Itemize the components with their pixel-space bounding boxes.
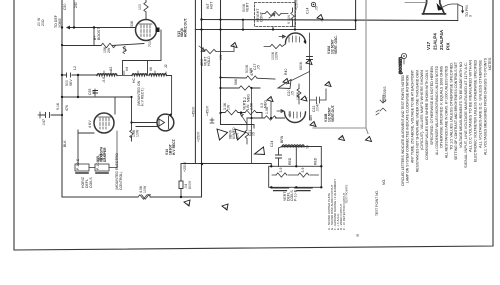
svg-text:CONTROL): CONTROL): [119, 171, 123, 190]
svg-text:3.9: 3.9: [301, 167, 305, 172]
svg-text:TO 1/2 VALUES UNLESS OTHERWISE: TO 1/2 VALUES UNLESS OTHERWISE SPECIFIED…: [449, 62, 453, 150]
svg-text:PIX: PIX: [446, 42, 451, 50]
svg-text:ANY TUBE, 250 ABOVE, VOLTAGE T: ANY TUBE, 250 ABOVE, VOLTAGE TO BE AT EA…: [411, 70, 415, 163]
svg-text:TEST POINT NO.: TEST POINT NO.: [375, 190, 379, 216]
svg-text:ALL CONDENSER VALUES MICROFARA: ALL CONDENSER VALUES MICROFARADS UNLESS …: [435, 65, 439, 155]
svg-text:.05: .05: [315, 6, 319, 11]
svg-text:50V: 50V: [236, 132, 240, 139]
svg-text:476: 476: [65, 105, 69, 111]
svg-text:C50: C50: [63, 3, 67, 10]
svg-text:YOKE: YOKE: [58, 18, 62, 28]
svg-text:A2: A2: [109, 67, 113, 71]
svg-text:+250V: +250V: [197, 131, 201, 142]
svg-text:680K: 680K: [299, 61, 303, 70]
svg-text:H - SOUND LIMITER PLATE: H - SOUND LIMITER PLATE: [327, 193, 331, 230]
svg-text:LAMP ON SYSTEM CONNECTED INDIC: LAMP ON SYSTEM CONNECTED INDICATE CLOCKW…: [406, 74, 410, 183]
svg-text:L2: L2: [73, 66, 77, 70]
svg-text:CONT: CONT: [260, 12, 264, 22]
svg-text:330: 330: [123, 46, 127, 52]
svg-text:+250V: +250V: [295, 0, 299, 10]
svg-text:ALL D.C VOLTAGES TO BE MEASURE: ALL D.C VOLTAGES TO BE MEASURED WITH AN: [469, 59, 473, 152]
svg-text:2W: 2W: [107, 47, 111, 53]
svg-text:VERT.OUT.: VERT.OUT.: [331, 105, 335, 122]
svg-text:+450V: +450V: [205, 105, 209, 116]
svg-text:3.9: 3.9: [279, 167, 283, 172]
svg-text:56K: 56K: [234, 78, 238, 85]
svg-text:(CIRCUIT). VALUES MMFD WHERE S: (CIRCUIT). VALUES MMFD WHERE SHOWN: [420, 69, 424, 150]
svg-text:5KV: 5KV: [69, 79, 73, 86]
svg-text:1W: 1W: [227, 104, 231, 110]
svg-text:BOOST: BOOST: [97, 28, 101, 40]
svg-text:9.1K: 9.1K: [56, 102, 60, 110]
svg-text:CIRCLED LETTERS INDICATE ALIGN: CIRCLED LETTERS INDICATE ALIGNMENT AND T…: [401, 74, 405, 186]
svg-text:DAMPER: DAMPER: [103, 147, 107, 162]
svg-text:VERT: VERT: [246, 3, 250, 12]
svg-text:10W: 10W: [143, 185, 147, 193]
svg-text:700: 700: [148, 41, 152, 47]
svg-text:ALL RESISTANCES ARE IN OHMS. K: ALL RESISTANCES ARE IN OHMS. K=1000 UNLE…: [444, 65, 448, 158]
svg-text:H: H: [341, 137, 343, 140]
svg-text:OTHERWISE SPECIFIED. K EQUALS: OTHERWISE SPECIFIED. K EQUALS 1000 OHMS: [440, 66, 444, 148]
svg-text:45V: 45V: [288, 110, 292, 117]
svg-text:100: 100: [138, 4, 142, 10]
svg-text:+250V: +250V: [183, 161, 187, 172]
svg-text:H.V RECT.): H.V RECT.): [141, 87, 145, 106]
svg-text:D: D: [328, 83, 330, 86]
svg-text:COILS: COILS: [89, 177, 93, 188]
svg-text:C24: C24: [270, 140, 274, 147]
svg-text:HC: HC: [132, 77, 136, 83]
svg-text:05: 05: [252, 132, 256, 136]
svg-text:(SOCKET): (SOCKET): [399, 57, 403, 74]
svg-text:RESISTANCES NOT SHOWN ARE UNDE: RESISTANCES NOT SHOWN ARE UNDER ONE THOU…: [415, 70, 419, 172]
svg-text:4 KV: 4 KV: [88, 120, 92, 128]
svg-text:.05: .05: [92, 90, 96, 95]
svg-text:CONDENSER VALUES MMFD WHERE SH: CONDENSER VALUES MMFD WHERE SHOWN WITH C…: [425, 70, 429, 160]
svg-text:20Ω: 20Ω: [41, 19, 45, 26]
svg-text:100K: 100K: [296, 91, 300, 100]
svg-text:.05: .05: [291, 91, 295, 96]
svg-text:C14: C14: [306, 7, 310, 14]
svg-text:21ALP4A: 21ALP4A: [439, 29, 444, 50]
svg-text:+450V: +450V: [192, 106, 196, 117]
svg-text:T7: T7: [306, 145, 310, 149]
svg-text:BLK: BLK: [63, 140, 67, 147]
svg-text:ALL VOLTAGES ARE D.C. UNLESS O: ALL VOLTAGES ARE D.C. UNLESS OTHERWISE: [478, 60, 482, 148]
svg-text:G: G: [313, 124, 315, 127]
svg-text:BRN: BRN: [280, 135, 284, 143]
svg-text:H.V RECT.: H.V RECT.: [172, 139, 176, 155]
svg-text:SIGNAL INPUT, LINE VOLTAGE MAI: SIGNAL INPUT, LINE VOLTAGE MAINTAINED AT…: [464, 62, 468, 168]
svg-text:VERT. OSC.: VERT. OSC.: [334, 35, 338, 54]
svg-text:HOLD: HOLD: [207, 56, 211, 66]
svg-text:ELECTRONIC VOLTMETER UNLESS OT: ELECTRONIC VOLTMETER UNLESS OTHERWISE SP…: [474, 59, 478, 162]
svg-text:2.5K: 2.5K: [250, 102, 254, 110]
svg-text:HORIZ.OUT.: HORIZ.OUT.: [183, 18, 187, 37]
svg-text:1W: 1W: [219, 54, 223, 60]
svg-text:NO.: NO.: [382, 179, 386, 185]
svg-text:-5.6: -5.6: [102, 77, 106, 83]
svg-text:MEG: MEG: [247, 94, 251, 102]
svg-text:10W: 10W: [136, 129, 140, 137]
svg-text:RED: RED: [314, 157, 318, 165]
svg-text:V LIN: V LIN: [287, 15, 291, 24]
svg-text:P-10-C: P-10-C: [76, 158, 80, 170]
svg-text:SETTING OF CONTRAST AND BRIGHT: SETTING OF CONTRAST AND BRIGHTNESS CONTR…: [454, 62, 458, 160]
svg-text:VOLTAGE MEASUREMENTS TO BE MAD: VOLTAGE MEASUREMENTS TO BE MADE WITH NO: [459, 61, 463, 148]
svg-text:#6: #6: [149, 67, 153, 71]
svg-text:V17: V17: [426, 41, 431, 50]
svg-text:21ALP4: 21ALP4: [433, 33, 438, 50]
svg-text:P-10-A: P-10-A: [96, 158, 100, 170]
svg-text:33K: 33K: [130, 20, 134, 27]
svg-text:SPECIFIED. OTHERWISE AS NOTED: SPECIFIED. OTHERWISE AS NOTED HEREIN: [430, 65, 434, 145]
svg-text:CHASSIS: CHASSIS: [383, 86, 387, 102]
svg-text:.047: .047: [42, 119, 46, 126]
svg-text:.0047: .0047: [316, 103, 320, 112]
svg-text:.05: .05: [257, 65, 261, 70]
svg-text:HGT: HGT: [210, 2, 214, 9]
svg-text:P-10-B: P-10-B: [294, 189, 298, 201]
svg-text:1/2W: 1/2W: [275, 51, 279, 60]
svg-text:48V: 48V: [309, 114, 313, 121]
svg-text:RED: RED: [288, 157, 292, 165]
svg-text:R40: R40: [284, 68, 288, 75]
svg-text:NOTES:: NOTES:: [488, 57, 492, 70]
svg-text:240: 240: [74, 2, 78, 8]
svg-text:C: C: [321, 20, 323, 23]
svg-text:3: 3: [469, 15, 473, 17]
svg-text:600V: 600V: [188, 180, 192, 189]
svg-text:#4: #4: [125, 67, 129, 71]
svg-text:J2: J2: [164, 64, 168, 68]
svg-text:ALL VOLTAGES MEASURED FROM CHA: ALL VOLTAGES MEASURED FROM CHASSIS TO PO…: [483, 58, 487, 155]
svg-text:MEG: MEG: [264, 100, 268, 108]
